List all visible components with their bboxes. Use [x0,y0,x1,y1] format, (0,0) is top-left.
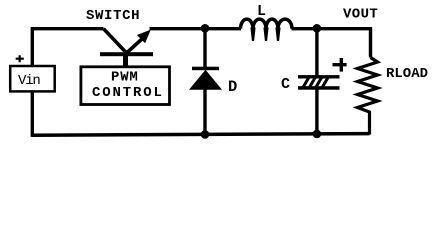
plus sign (Vin polarity) [16,55,24,62]
svg-text:CONTROL: CONTROL [92,85,164,101]
switch Q1 (transistor) [100,29,153,68]
inductor L [241,19,293,41]
svg-text:Vin: Vin [18,73,40,89]
pwm control U1 [81,67,170,105]
junction dot: diode top [201,24,210,33]
diode D [189,29,222,136]
capacitor C [298,29,340,136]
wire: bottom rail [32,134,369,136]
svg-text:SWITCH: SWITCH [86,8,140,24]
svg-text:PWM: PWM [111,70,139,86]
wire: Vin bottom lead [31,92,34,137]
wire: top rail switch to inductor [150,27,242,30]
wire: top rail inductor to right corner and resistor top lead [292,29,371,58]
svg-text:D: D [228,78,237,96]
plus sign (capacitor polarity) [333,58,347,72]
svg-text:L: L [257,3,266,20]
svg-text:RLOAD: RLOAD [386,66,428,82]
svg-text:VOUT: VOUT [343,7,378,23]
resistor RLOAD [358,58,378,135]
source Vin [10,66,55,91]
wire: Vin top lead + top rail left segment [32,29,103,66]
junction dot: capacitor top [313,24,322,33]
svg-text:C: C [281,76,290,93]
junction dot: capacitor bottom [313,130,322,139]
junction dot: diode bottom [201,130,210,139]
